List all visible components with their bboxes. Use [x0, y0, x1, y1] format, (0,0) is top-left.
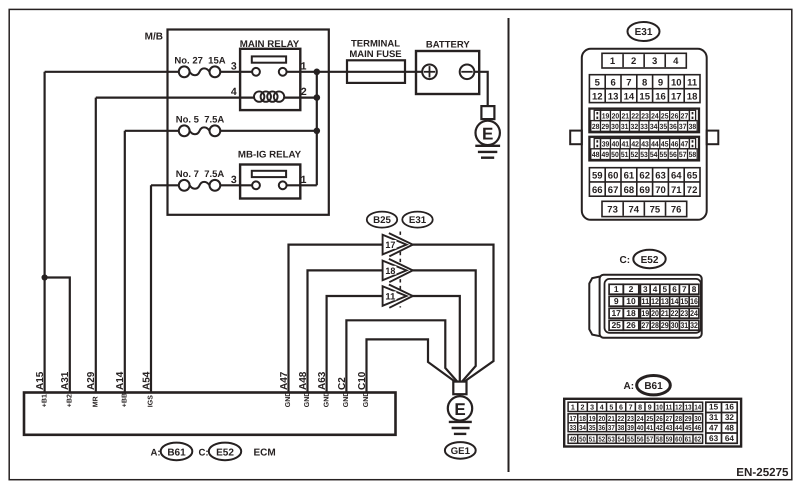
ground GE1 terminal — [453, 382, 466, 395]
svg-text:3: 3 — [643, 285, 648, 294]
E31 cells 39-58 — [589, 137, 699, 161]
svg-text:46: 46 — [671, 140, 679, 149]
svg-text:41: 41 — [621, 140, 629, 149]
svg-text:GND: GND — [343, 392, 350, 408]
svg-text:5: 5 — [662, 285, 667, 294]
svg-text:2: 2 — [631, 56, 636, 67]
connector E31 body — [582, 49, 707, 220]
svg-text:50: 50 — [579, 435, 586, 443]
svg-text:23: 23 — [627, 415, 634, 423]
svg-text:B61: B61 — [644, 381, 663, 392]
svg-text:39: 39 — [627, 424, 634, 432]
battery — [416, 51, 479, 94]
svg-text:59: 59 — [592, 171, 603, 182]
svg-text:49: 49 — [570, 435, 577, 443]
svg-text:64: 64 — [671, 171, 682, 182]
svg-text:47: 47 — [709, 423, 719, 432]
svg-text:54: 54 — [618, 435, 625, 443]
svg-text:48: 48 — [592, 150, 600, 159]
svg-text:ECM: ECM — [254, 447, 276, 458]
svg-text:No. 5 7.5A: No. 5 7.5A — [176, 115, 225, 126]
svg-text:20: 20 — [651, 309, 659, 318]
battery positive terminal — [422, 65, 437, 80]
svg-text:17: 17 — [570, 415, 577, 423]
svg-text:60: 60 — [608, 171, 619, 182]
wire pass-through 11 to ground GE1 — [411, 296, 460, 381]
svg-text:19: 19 — [589, 415, 596, 423]
svg-text:48: 48 — [725, 423, 735, 432]
main relay — [240, 49, 300, 110]
svg-text:1: 1 — [301, 61, 307, 73]
svg-text:A48: A48 — [298, 371, 309, 390]
svg-text:20: 20 — [598, 415, 605, 423]
svg-text:73: 73 — [607, 204, 618, 215]
MB-IG relay — [240, 165, 300, 199]
svg-text:C:: C: — [620, 255, 631, 266]
svg-text:12: 12 — [675, 403, 682, 411]
svg-text:+BB: +BB — [122, 393, 129, 407]
wire A48 GND to pass-through 18 — [308, 270, 383, 392]
svg-text:17: 17 — [671, 91, 682, 102]
svg-text:A15: A15 — [35, 371, 46, 390]
svg-text:30: 30 — [611, 122, 619, 131]
E31 cells 1-4 — [602, 53, 686, 68]
svg-text:39: 39 — [602, 140, 610, 149]
svg-text:20: 20 — [612, 111, 620, 120]
wire node vertical junction inside M/B — [316, 72, 318, 186]
svg-text:57: 57 — [646, 435, 653, 443]
wire main relay coil pin 4 to ECM A29 MR — [96, 96, 254, 98]
svg-text:38: 38 — [689, 122, 697, 131]
svg-text:25: 25 — [646, 415, 653, 423]
svg-text:30: 30 — [694, 415, 701, 423]
svg-text:A14: A14 — [115, 371, 126, 390]
svg-text:A54: A54 — [141, 371, 152, 390]
junction node +B — [42, 274, 48, 280]
E52 cells 9-16 — [609, 296, 623, 306]
svg-text:36: 36 — [598, 424, 605, 432]
svg-text:19: 19 — [641, 309, 649, 318]
svg-text:9: 9 — [658, 78, 663, 89]
svg-text:E52: E52 — [641, 255, 659, 266]
svg-text:60: 60 — [675, 435, 682, 443]
svg-text:57: 57 — [679, 150, 687, 159]
panel divider line — [508, 18, 510, 472]
svg-text:42: 42 — [656, 424, 663, 432]
svg-text:11: 11 — [641, 297, 649, 306]
E52 cells 1-8 — [609, 284, 623, 294]
svg-text:3: 3 — [231, 174, 237, 186]
svg-text:52: 52 — [598, 435, 605, 443]
svg-text:24: 24 — [690, 309, 698, 318]
svg-text:71: 71 — [671, 185, 682, 196]
svg-text:58: 58 — [689, 150, 697, 159]
svg-text:37: 37 — [608, 424, 615, 432]
svg-text:A47: A47 — [279, 371, 290, 390]
svg-text:22: 22 — [618, 415, 625, 423]
wire A63 GND to pass-through 11 — [327, 296, 383, 393]
svg-text:E52: E52 — [216, 447, 234, 458]
wire C10 GND to ground GE1 — [367, 339, 456, 392]
svg-text:42: 42 — [631, 140, 639, 149]
M/B fuse box — [168, 30, 329, 215]
svg-text:MR: MR — [93, 396, 100, 407]
junction dot pin2 node — [314, 94, 321, 101]
svg-text:B25: B25 — [373, 215, 391, 226]
E52 cells 17-24 — [609, 308, 623, 318]
connector label E31 — [402, 212, 432, 228]
svg-text:29: 29 — [602, 122, 610, 131]
svg-text:17: 17 — [385, 240, 395, 250]
svg-text:56: 56 — [637, 435, 644, 443]
svg-text:8: 8 — [642, 78, 647, 89]
svg-text:3: 3 — [590, 403, 594, 411]
svg-text:11: 11 — [687, 78, 698, 89]
svg-text:16: 16 — [655, 91, 666, 102]
svg-text:32: 32 — [631, 122, 639, 131]
svg-text:A31: A31 — [60, 371, 71, 390]
svg-text:9: 9 — [648, 403, 652, 411]
svg-text:10: 10 — [656, 403, 663, 411]
svg-text:47: 47 — [681, 140, 689, 149]
svg-text:A63: A63 — [317, 371, 328, 390]
svg-text:37: 37 — [679, 122, 687, 131]
fuse No. 7&#160; 7.5A — [190, 182, 210, 189]
E31 cells 73-76 — [602, 201, 687, 216]
wire fuse No.5 to junction and ECM A14 +BB — [125, 130, 179, 132]
svg-text:27: 27 — [641, 321, 649, 330]
svg-text:1: 1 — [301, 174, 307, 186]
svg-text:26: 26 — [671, 111, 679, 120]
svg-text:13: 13 — [608, 91, 619, 102]
svg-text:EN-25275: EN-25275 — [736, 466, 789, 479]
svg-text:+B1: +B1 — [41, 394, 48, 407]
wire fuse No.7 to MB-IG relay and ECM A54 IGS — [151, 184, 179, 186]
main relay coil — [254, 91, 264, 101]
svg-text:32: 32 — [690, 321, 698, 330]
E31 cells 5-18 — [589, 75, 700, 103]
svg-text:C10: C10 — [357, 371, 368, 390]
svg-text:10: 10 — [671, 78, 682, 89]
svg-text:6: 6 — [619, 403, 623, 411]
svg-text:C2: C2 — [337, 377, 348, 390]
svg-text:GND: GND — [363, 392, 370, 408]
svg-text:A:: A: — [624, 381, 635, 392]
svg-text:75: 75 — [650, 204, 661, 215]
svg-text:32: 32 — [725, 413, 735, 422]
connector label GE1 — [445, 442, 476, 459]
wire A47 GND to pass-through 17 — [289, 245, 383, 393]
svg-text:23: 23 — [680, 309, 688, 318]
svg-text:25: 25 — [611, 320, 621, 330]
svg-text:18: 18 — [626, 308, 636, 318]
svg-text:36: 36 — [669, 122, 677, 131]
svg-text:GND: GND — [285, 392, 292, 408]
B61 cells 1-14 — [568, 402, 703, 411]
junction dot No.5 node — [314, 128, 321, 135]
svg-text:34: 34 — [650, 122, 658, 131]
svg-text:56: 56 — [669, 150, 677, 159]
connector pass-through 17 — [389, 233, 413, 256]
junction dot pin1 node — [314, 69, 321, 76]
svg-text:E31: E31 — [635, 27, 653, 38]
svg-text:4: 4 — [673, 56, 679, 67]
svg-text:31: 31 — [621, 122, 629, 131]
connector B61 body — [564, 399, 741, 447]
ECM — [24, 393, 396, 435]
svg-text:53: 53 — [608, 435, 615, 443]
svg-text:E: E — [482, 124, 493, 143]
svg-text:63: 63 — [655, 171, 666, 182]
svg-text:22: 22 — [631, 111, 639, 120]
svg-text:74: 74 — [628, 204, 639, 215]
svg-text:GND: GND — [304, 392, 311, 408]
svg-text:29: 29 — [685, 415, 692, 423]
svg-text:18: 18 — [385, 266, 395, 276]
svg-text:49: 49 — [602, 150, 610, 159]
svg-text:28: 28 — [592, 122, 600, 131]
svg-text:61: 61 — [624, 171, 635, 182]
svg-text:72: 72 — [687, 185, 698, 196]
svg-text:3: 3 — [652, 56, 657, 67]
svg-text:17: 17 — [611, 308, 621, 318]
svg-text:24: 24 — [637, 415, 644, 423]
svg-text:8: 8 — [638, 403, 642, 411]
wire C2 GND to ground GE1 — [346, 320, 457, 392]
svg-text:46: 46 — [694, 424, 701, 432]
svg-text:BATTERY: BATTERY — [426, 40, 470, 51]
fuse No. 5&#160; 7.5A — [190, 127, 210, 134]
svg-text:1: 1 — [614, 284, 619, 294]
svg-text:22: 22 — [671, 309, 679, 318]
svg-text:2: 2 — [301, 86, 307, 98]
svg-text:67: 67 — [608, 185, 619, 196]
main relay contact bar — [252, 56, 286, 62]
svg-text:34: 34 — [579, 424, 586, 432]
svg-text:18: 18 — [687, 91, 698, 102]
svg-text:25: 25 — [661, 111, 669, 120]
main relay contact circles — [252, 68, 260, 76]
svg-text:1: 1 — [571, 403, 575, 411]
svg-text:52: 52 — [631, 150, 639, 159]
svg-text:+B2: +B2 — [67, 394, 74, 407]
svg-text:51: 51 — [589, 435, 596, 443]
svg-text:41: 41 — [646, 424, 653, 432]
svg-text:26: 26 — [626, 320, 636, 330]
wire +B feed: fuse No.27 to main relay contact — [45, 71, 179, 73]
svg-text:IGS: IGS — [148, 395, 155, 407]
svg-text:26: 26 — [656, 415, 663, 423]
connector label E31 pinout — [628, 22, 660, 41]
svg-text:16: 16 — [690, 297, 698, 306]
svg-text:E: E — [454, 400, 465, 419]
svg-text:4: 4 — [600, 403, 604, 411]
connector E31 left tab — [570, 131, 582, 145]
svg-text:59: 59 — [666, 435, 673, 443]
svg-text:44: 44 — [651, 140, 659, 149]
svg-text:38: 38 — [618, 424, 625, 432]
svg-text:62: 62 — [639, 171, 650, 182]
svg-text:MB-IG RELAY: MB-IG RELAY — [238, 150, 302, 161]
svg-text:19: 19 — [602, 111, 610, 120]
wire A15 +B1 vertical — [43, 72, 45, 393]
svg-text:62: 62 — [694, 435, 701, 443]
svg-text:21: 21 — [608, 415, 615, 423]
B61 cells 17-46 — [568, 414, 703, 432]
svg-text:E31: E31 — [409, 215, 427, 226]
svg-text:A29: A29 — [86, 371, 97, 390]
svg-text:68: 68 — [624, 185, 635, 196]
svg-text:8: 8 — [692, 285, 697, 294]
svg-text:13: 13 — [685, 403, 692, 411]
svg-text:7: 7 — [629, 403, 633, 411]
ground E battery — [481, 106, 494, 119]
svg-text:27: 27 — [666, 415, 673, 423]
svg-text:65: 65 — [687, 171, 698, 182]
svg-text:GE1: GE1 — [451, 446, 471, 457]
svg-text:21: 21 — [661, 309, 669, 318]
svg-text:35: 35 — [589, 424, 596, 432]
svg-text:6: 6 — [672, 285, 677, 294]
wire pass-through 18 to ground GE1 — [411, 270, 476, 381]
svg-text:6: 6 — [610, 78, 615, 89]
svg-text:31: 31 — [709, 413, 719, 422]
svg-text:12: 12 — [592, 91, 603, 102]
connector E31 right tab — [707, 131, 719, 145]
wire A31 +B2 branch — [45, 278, 70, 393]
B61 cells 15-64 right block — [706, 402, 737, 443]
svg-text:C:: C: — [199, 447, 209, 458]
fuse No. 27&#160; 15A — [190, 68, 210, 75]
svg-text:55: 55 — [660, 150, 668, 159]
svg-text:30: 30 — [671, 321, 679, 330]
svg-text:14: 14 — [671, 297, 679, 306]
wire pass-through 17 to ground GE1 — [411, 245, 494, 382]
svg-text:43: 43 — [666, 424, 673, 432]
E52 cells 25-32 — [609, 320, 623, 330]
svg-text:69: 69 — [639, 185, 650, 196]
svg-text:1: 1 — [610, 56, 616, 67]
svg-text:44: 44 — [675, 424, 682, 432]
svg-text:50: 50 — [611, 150, 619, 159]
svg-text:MAIN RELAY: MAIN RELAY — [240, 39, 300, 50]
svg-text:58: 58 — [656, 435, 663, 443]
svg-text:70: 70 — [655, 185, 666, 196]
svg-text:11: 11 — [666, 403, 673, 411]
svg-text:15: 15 — [709, 403, 719, 412]
svg-text:11: 11 — [385, 291, 395, 301]
svg-text:33: 33 — [640, 122, 648, 131]
svg-text:GND: GND — [323, 392, 330, 408]
E31 cells 59-72 — [589, 168, 700, 197]
E31 cells 19-38 — [589, 109, 699, 133]
svg-text:28: 28 — [651, 321, 659, 330]
wire main relay output pin 1 to battery — [285, 71, 423, 73]
svg-text:40: 40 — [612, 140, 620, 149]
svg-text:28: 28 — [675, 415, 682, 423]
connector pass-through 18 — [389, 259, 413, 282]
svg-text:A:: A: — [151, 447, 161, 458]
svg-text:55: 55 — [627, 435, 634, 443]
svg-text:15: 15 — [680, 297, 688, 306]
svg-text:51: 51 — [621, 150, 629, 159]
MB-IG relay contact bar — [252, 171, 286, 177]
svg-text:15: 15 — [639, 91, 650, 102]
svg-text:53: 53 — [640, 150, 648, 159]
svg-text:40: 40 — [637, 424, 644, 432]
svg-text:5: 5 — [595, 78, 601, 89]
svg-text:2: 2 — [581, 403, 585, 411]
svg-text:45: 45 — [661, 140, 669, 149]
svg-text:31: 31 — [680, 321, 688, 330]
svg-text:64: 64 — [725, 434, 735, 443]
svg-text:4: 4 — [231, 86, 237, 98]
svg-text:14: 14 — [694, 403, 701, 411]
svg-text:4: 4 — [653, 285, 658, 294]
svg-text:12: 12 — [651, 297, 659, 306]
svg-text:2: 2 — [629, 284, 634, 294]
svg-text:M/B: M/B — [145, 32, 163, 43]
svg-text:B61: B61 — [167, 447, 186, 458]
svg-text:3: 3 — [231, 61, 237, 73]
svg-text:33: 33 — [570, 424, 577, 432]
connector pass-through 11 — [389, 285, 413, 308]
svg-text:MAIN FUSE: MAIN FUSE — [349, 49, 401, 60]
svg-text:21: 21 — [621, 111, 629, 120]
svg-text:76: 76 — [671, 204, 682, 215]
connector boundary dashed line — [399, 232, 401, 308]
svg-text:45: 45 — [685, 424, 692, 432]
B61 cells 49-62 — [568, 435, 703, 444]
svg-text:23: 23 — [641, 111, 649, 120]
svg-text:14: 14 — [624, 91, 635, 102]
terminal main fuse — [347, 60, 405, 83]
svg-text:16: 16 — [725, 403, 735, 412]
svg-text:27: 27 — [681, 111, 689, 120]
connector label B25 — [367, 212, 397, 228]
wire battery negative to ground — [474, 72, 488, 107]
svg-text:10: 10 — [626, 296, 636, 306]
svg-text:29: 29 — [661, 321, 669, 330]
svg-text:54: 54 — [650, 150, 658, 159]
svg-text:35: 35 — [660, 122, 668, 131]
svg-text:7: 7 — [626, 78, 631, 89]
svg-text:63: 63 — [709, 434, 719, 443]
svg-text:7: 7 — [682, 285, 687, 294]
connector E52 body — [589, 277, 600, 337]
svg-text:13: 13 — [661, 297, 669, 306]
svg-text:66: 66 — [592, 185, 603, 196]
svg-text:61: 61 — [685, 435, 692, 443]
svg-text:24: 24 — [651, 111, 659, 120]
svg-text:No. 7 7.5A: No. 7 7.5A — [176, 169, 225, 180]
MB-IG relay contact circles — [252, 181, 260, 189]
svg-text:5: 5 — [609, 403, 613, 411]
battery negative terminal — [460, 65, 475, 80]
svg-text:No. 27 15A: No. 27 15A — [174, 56, 225, 67]
svg-text:43: 43 — [641, 140, 649, 149]
svg-text:9: 9 — [614, 296, 619, 306]
svg-text:18: 18 — [579, 415, 586, 423]
